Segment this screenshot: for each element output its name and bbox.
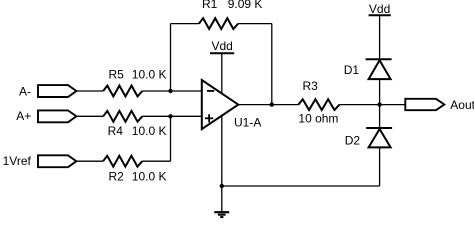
wire vertical minus node up to feedback row xyxy=(170,24,172,91)
svg-text:10.0 K: 10.0 K xyxy=(132,67,167,81)
wire feedback row to R1 xyxy=(171,23,200,25)
resistor R4 xyxy=(103,111,142,122)
svg-text:R3: R3 xyxy=(303,79,319,93)
svg-text:U1-A: U1-A xyxy=(234,115,261,129)
junction ground node xyxy=(220,184,224,188)
wire R5 to op-amp minus input xyxy=(142,90,202,92)
ground symbol xyxy=(214,211,229,213)
svg-text:R2: R2 xyxy=(109,170,125,184)
junction Aout node xyxy=(377,102,381,106)
svg-text:A-: A- xyxy=(19,84,31,98)
op-amp minus pin mark xyxy=(207,90,214,92)
op-amp U1-A xyxy=(202,80,239,129)
junction minus node xyxy=(168,89,172,93)
wire vertical R2 corner up to plus node xyxy=(170,116,172,161)
port Aout xyxy=(405,99,444,110)
svg-text:R5: R5 xyxy=(109,67,125,81)
svg-text:10 ohm: 10 ohm xyxy=(298,111,338,125)
wire R4 to op-amp plus input xyxy=(142,115,202,117)
wire D1 anode to output node xyxy=(379,79,381,105)
svg-text:R1: R1 xyxy=(202,0,218,11)
wire R2 to corner xyxy=(142,160,170,162)
wire vertical D2 anode to ground rail xyxy=(379,147,381,186)
wire op-amp output to R3 xyxy=(238,104,298,106)
svg-text:10.0 K: 10.0 K xyxy=(132,170,167,184)
op-amp plus pin mark xyxy=(205,117,213,119)
wire A- port to R5 xyxy=(76,90,103,92)
resistor R2 xyxy=(103,156,142,167)
wire R3 to Aout port xyxy=(340,104,406,106)
port A+ xyxy=(38,110,76,122)
wire R1 to feedback right corner xyxy=(238,23,272,25)
wire op-amp bottom to ground junction xyxy=(221,116,223,186)
resistor R5 xyxy=(103,86,142,97)
port A- xyxy=(38,85,76,97)
wire output node to D2 cathode xyxy=(379,105,381,128)
wire Vdd bar to op-amp top xyxy=(221,53,223,93)
svg-text:A+: A+ xyxy=(16,109,31,123)
wire A+ port to R4 xyxy=(76,115,103,117)
diode D2 xyxy=(366,127,392,129)
resistor R3 xyxy=(298,99,339,110)
wire ground junction to ground symbol xyxy=(221,186,223,212)
port 1Vref xyxy=(38,155,76,167)
svg-text:1Vref: 1Vref xyxy=(3,154,32,168)
diode D1 xyxy=(366,58,392,60)
svg-text:R4: R4 xyxy=(108,124,124,138)
svg-text:Vdd: Vdd xyxy=(212,39,233,53)
wire 1Vref port to R2 xyxy=(76,160,103,162)
junction output node at feedback xyxy=(270,102,274,106)
junction plus node xyxy=(168,114,172,118)
svg-text:10.0 K: 10.0 K xyxy=(132,124,167,138)
svg-text:D1: D1 xyxy=(344,63,360,77)
svg-text:Vdd: Vdd xyxy=(369,2,390,16)
svg-text:9.09 K: 9.09 K xyxy=(228,0,263,11)
wire Vdd bar to D1 cathode xyxy=(379,16,381,59)
resistor R1 xyxy=(199,18,238,29)
wire vertical feedback down to output node xyxy=(271,24,273,105)
svg-text:Aout: Aout xyxy=(450,98,474,112)
wire ground rail xyxy=(222,185,380,187)
svg-text:D2: D2 xyxy=(345,134,361,148)
